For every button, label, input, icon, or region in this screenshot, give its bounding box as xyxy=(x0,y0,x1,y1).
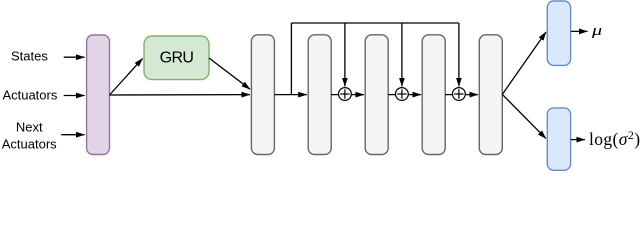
wire: input block -> GRU (diagonal) xyxy=(110,58,143,95)
svg-text:GRU: GRU xyxy=(160,50,194,67)
hidden layer bar L5 xyxy=(479,35,502,155)
wire: L1 -> L2 with junction xyxy=(274,94,306,96)
wire: States -> input block xyxy=(64,56,85,58)
wire: residual drop 2 into adder A2 xyxy=(401,23,403,86)
svg-text:μ: μ xyxy=(591,21,602,38)
wire: Actuators -> input block xyxy=(64,95,85,97)
label mu xyxy=(591,21,602,38)
hidden layer bar L1 xyxy=(251,35,274,155)
wire: GRU -> hidden layer 1 (diagonal) xyxy=(209,58,250,89)
wire: residual riser at junction xyxy=(290,23,292,95)
wire: adder A3 -> L5 xyxy=(466,94,479,96)
wire: residual drop 1 into adder A1 xyxy=(344,23,346,86)
label "Next Actuators" (two lines) xyxy=(2,120,57,152)
wire: L5 -> mu head (diagonal) xyxy=(502,32,546,94)
wire: adder A1 -> L3 xyxy=(352,94,365,96)
hidden layer bar L3 xyxy=(365,35,388,155)
wire: L5 -> log-variance head (diagonal) xyxy=(502,94,546,138)
svg-text:Next: Next xyxy=(16,120,43,135)
adder A3 (circled plus) xyxy=(453,88,466,101)
hidden layer bar L2 xyxy=(308,35,331,155)
output head bar (mu, blue) xyxy=(547,1,570,65)
svg-text:log(σ2): log(σ2) xyxy=(589,128,640,149)
GRU box U1 xyxy=(144,36,209,80)
adder A2 (circled plus) xyxy=(396,88,409,101)
svg-text:Actuators: Actuators xyxy=(2,137,57,152)
wire: mu head -> mu label xyxy=(571,30,588,32)
wire: L2 -> adder A1 xyxy=(331,94,338,96)
wire: input block -> hidden layer 1 (straight) xyxy=(110,94,250,96)
svg-text:States: States xyxy=(11,49,48,64)
input block (purple vertical bar) xyxy=(87,35,110,155)
output head bar (log-variance, blue) xyxy=(547,108,570,170)
wire: residual drop 3 into adder A3 xyxy=(458,23,460,86)
wire: L3 -> adder A2 xyxy=(388,94,395,96)
hidden layer bar L4 xyxy=(422,35,445,155)
wire: adder A2 -> L4 xyxy=(409,94,422,96)
wire: Next Actuators -> input block xyxy=(61,134,84,136)
wire: residual top rail xyxy=(291,22,459,24)
svg-text:Actuators: Actuators xyxy=(2,88,57,103)
wire: L4 -> adder A3 xyxy=(445,94,452,96)
wire: log-variance head -> label xyxy=(571,139,585,141)
adder A1 (circled plus) xyxy=(339,88,352,101)
